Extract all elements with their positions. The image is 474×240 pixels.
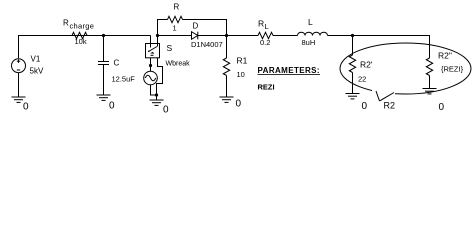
svg-text:R: R — [63, 19, 69, 28]
svg-text:0: 0 — [439, 102, 445, 113]
resistor R1 branch — [226, 36, 228, 59]
resistor R2' branch — [352, 36, 354, 56]
ground (V1) — [12, 96, 26, 98]
resistor Rcharge — [72, 32, 87, 38]
wire diode to node — [198, 35, 258, 37]
wire upper branch — [158, 20, 168, 36]
wire upper branch right — [183, 20, 227, 36]
svg-text:PARAMETERS:: PARAMETERS: — [258, 66, 320, 75]
svg-text:D1N4007: D1N4007 — [191, 40, 223, 49]
wire main top rail left — [19, 36, 151, 59]
svg-text:10k: 10k — [75, 37, 87, 46]
svg-text:R1: R1 — [237, 56, 248, 66]
svg-text:R: R — [174, 3, 180, 12]
sine source (switch control) — [144, 71, 158, 85]
wire rail to right — [328, 35, 430, 37]
svg-text:R2": R2" — [438, 51, 452, 61]
svg-text:0: 0 — [163, 105, 169, 116]
ground (switch source) — [150, 99, 164, 101]
node capacitor tap — [102, 34, 105, 37]
svg-text:0: 0 — [362, 101, 368, 112]
wire V1 to ground — [18, 73, 20, 97]
annotation ellipse (speech bubble) — [340, 43, 471, 94]
node ground tap — [155, 93, 158, 96]
wire source bottom to ground — [151, 85, 157, 95]
node control loop — [149, 64, 152, 67]
ground (R2'') — [423, 88, 437, 90]
svg-text:Wbreak: Wbreak — [166, 61, 191, 68]
svg-text:22: 22 — [358, 75, 366, 84]
diode D D1N4007 — [192, 32, 198, 40]
wire — [273, 35, 298, 37]
svg-text:5kV: 5kV — [30, 67, 44, 76]
voltage source V1 — [12, 59, 26, 73]
node switch/rail — [156, 34, 159, 37]
resistor RL — [258, 32, 273, 38]
svg-text:0.2: 0.2 — [260, 38, 270, 47]
resistor R2'' branch — [426, 58, 432, 76]
svg-text:R: R — [258, 18, 264, 28]
resistor R — [168, 16, 183, 22]
svg-text:R2: R2 — [384, 101, 396, 111]
svg-text:12.5uF: 12.5uF — [112, 75, 136, 84]
wire switch right pin up to rail — [157, 36, 159, 44]
svg-text:R2': R2' — [360, 60, 373, 70]
svg-text:1: 1 — [173, 24, 177, 33]
svg-text:0: 0 — [236, 99, 242, 110]
svg-text:L: L — [265, 22, 269, 31]
svg-text:{REZI}: {REZI} — [441, 65, 464, 74]
svg-text:0: 0 — [23, 102, 29, 113]
svg-text:L: L — [308, 17, 313, 27]
ground (C) — [97, 94, 111, 96]
wire rail to diode — [158, 35, 192, 37]
ground (R1) — [220, 96, 234, 98]
bubble tail — [376, 91, 380, 101]
switch S box — [150, 36, 152, 44]
node R1 tap — [225, 34, 228, 37]
capacitor C — [103, 36, 105, 62]
svg-text:C: C — [114, 58, 120, 67]
wire rail down to R2'' — [429, 35, 431, 58]
svg-text:10: 10 — [237, 70, 245, 79]
svg-text:V1: V1 — [31, 55, 41, 64]
svg-text:REZI: REZI — [258, 82, 275, 91]
svg-text:D: D — [193, 22, 199, 31]
wire switch to pulse source — [150, 58, 152, 71]
inductor L — [298, 32, 328, 35]
svg-text:charge: charge — [70, 21, 95, 30]
svg-text:S: S — [167, 43, 173, 53]
node R2' tap — [351, 34, 354, 37]
svg-text:0: 0 — [109, 101, 115, 112]
ground (R2') — [346, 93, 360, 95]
wire control loop bracket — [157, 58, 163, 95]
svg-text:8uH: 8uH — [302, 38, 316, 47]
